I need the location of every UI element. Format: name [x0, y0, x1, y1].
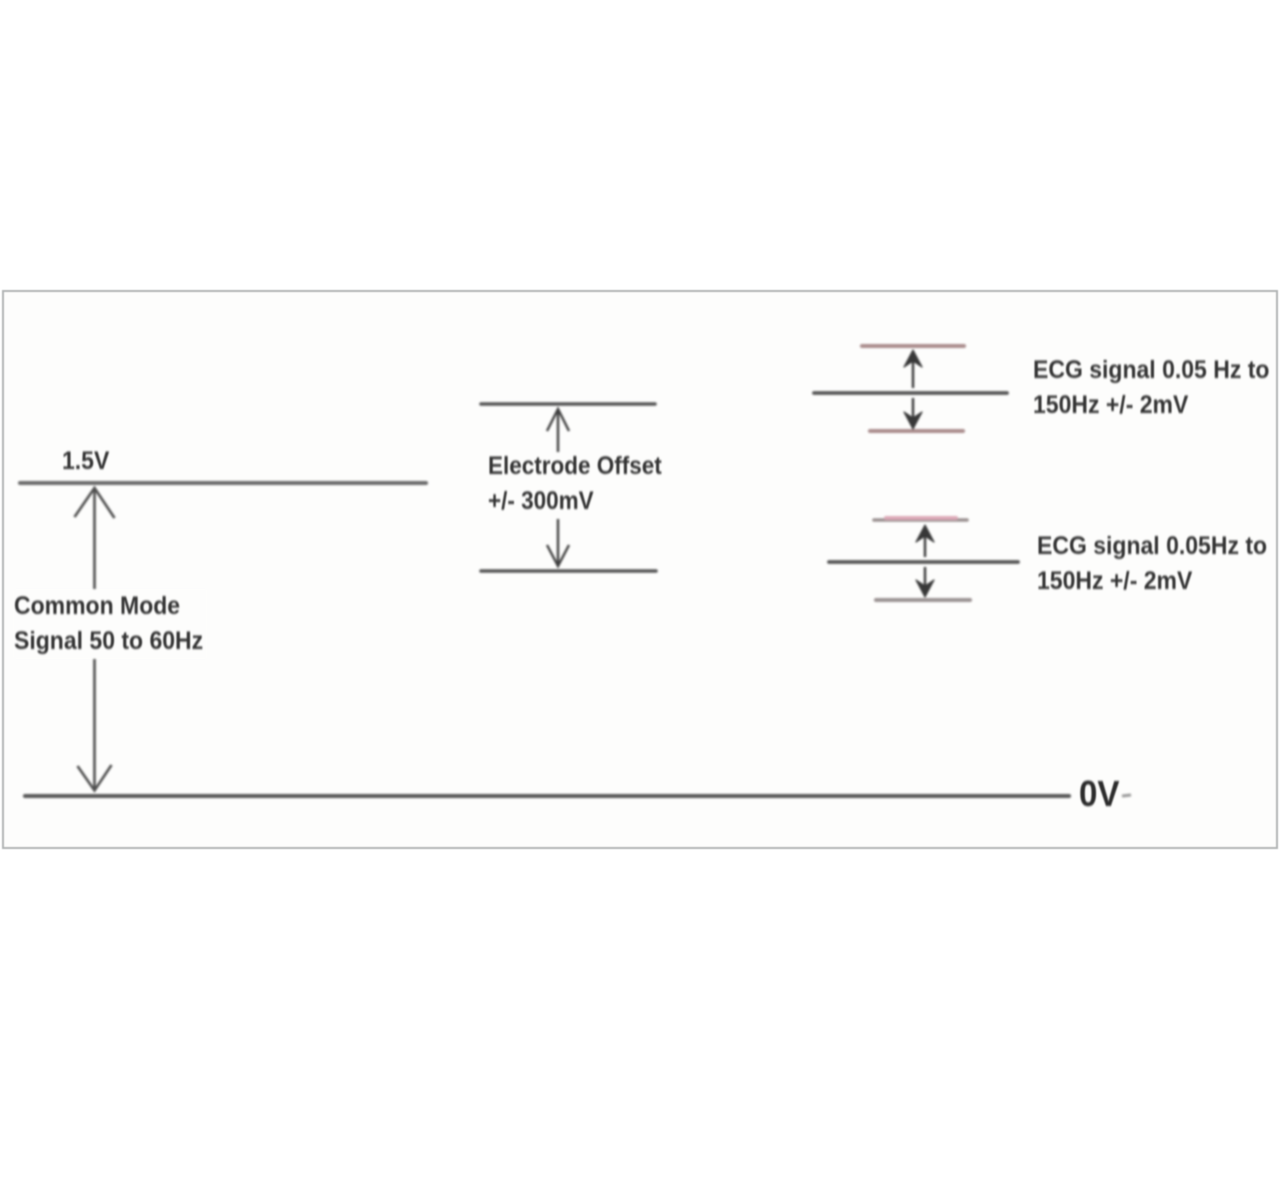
label ECG signal top: [1033, 353, 1269, 423]
ECG1 upper pink limit line: [862, 344, 964, 348]
1.5V level line: [20, 481, 426, 485]
electrode offset upper line: [481, 402, 655, 406]
ECG2 upper pink limit line: [874, 518, 967, 520]
electrode offset lower line: [481, 569, 656, 573]
ECG1 up arrow: [904, 350, 922, 388]
common mode double arrow: [75, 488, 115, 791]
ECG2 down arrow: [916, 567, 934, 597]
ECG2 up arrow: [916, 525, 934, 557]
label ECG signal bottom: [1037, 529, 1267, 599]
label 1.5V: [62, 444, 109, 479]
ECG1 lower pink limit line: [870, 429, 963, 433]
label 0V: [1079, 776, 1120, 811]
ECG2 baseline: [829, 560, 1018, 564]
0V ground line: [25, 794, 1069, 798]
outer box frame: [2, 290, 1278, 849]
electrode offset up arrow: [547, 409, 569, 452]
dash after 0V: [1122, 795, 1131, 796]
label Common Mode Signal 50 to 60Hz: [14, 589, 207, 659]
ECG2 lower limit line: [876, 598, 970, 602]
ECG1 down arrow: [904, 398, 922, 429]
electrode offset down arrow: [547, 519, 569, 566]
label Electrode Offset +/- 300mV: [488, 449, 662, 519]
ECG1 baseline: [814, 391, 1007, 395]
